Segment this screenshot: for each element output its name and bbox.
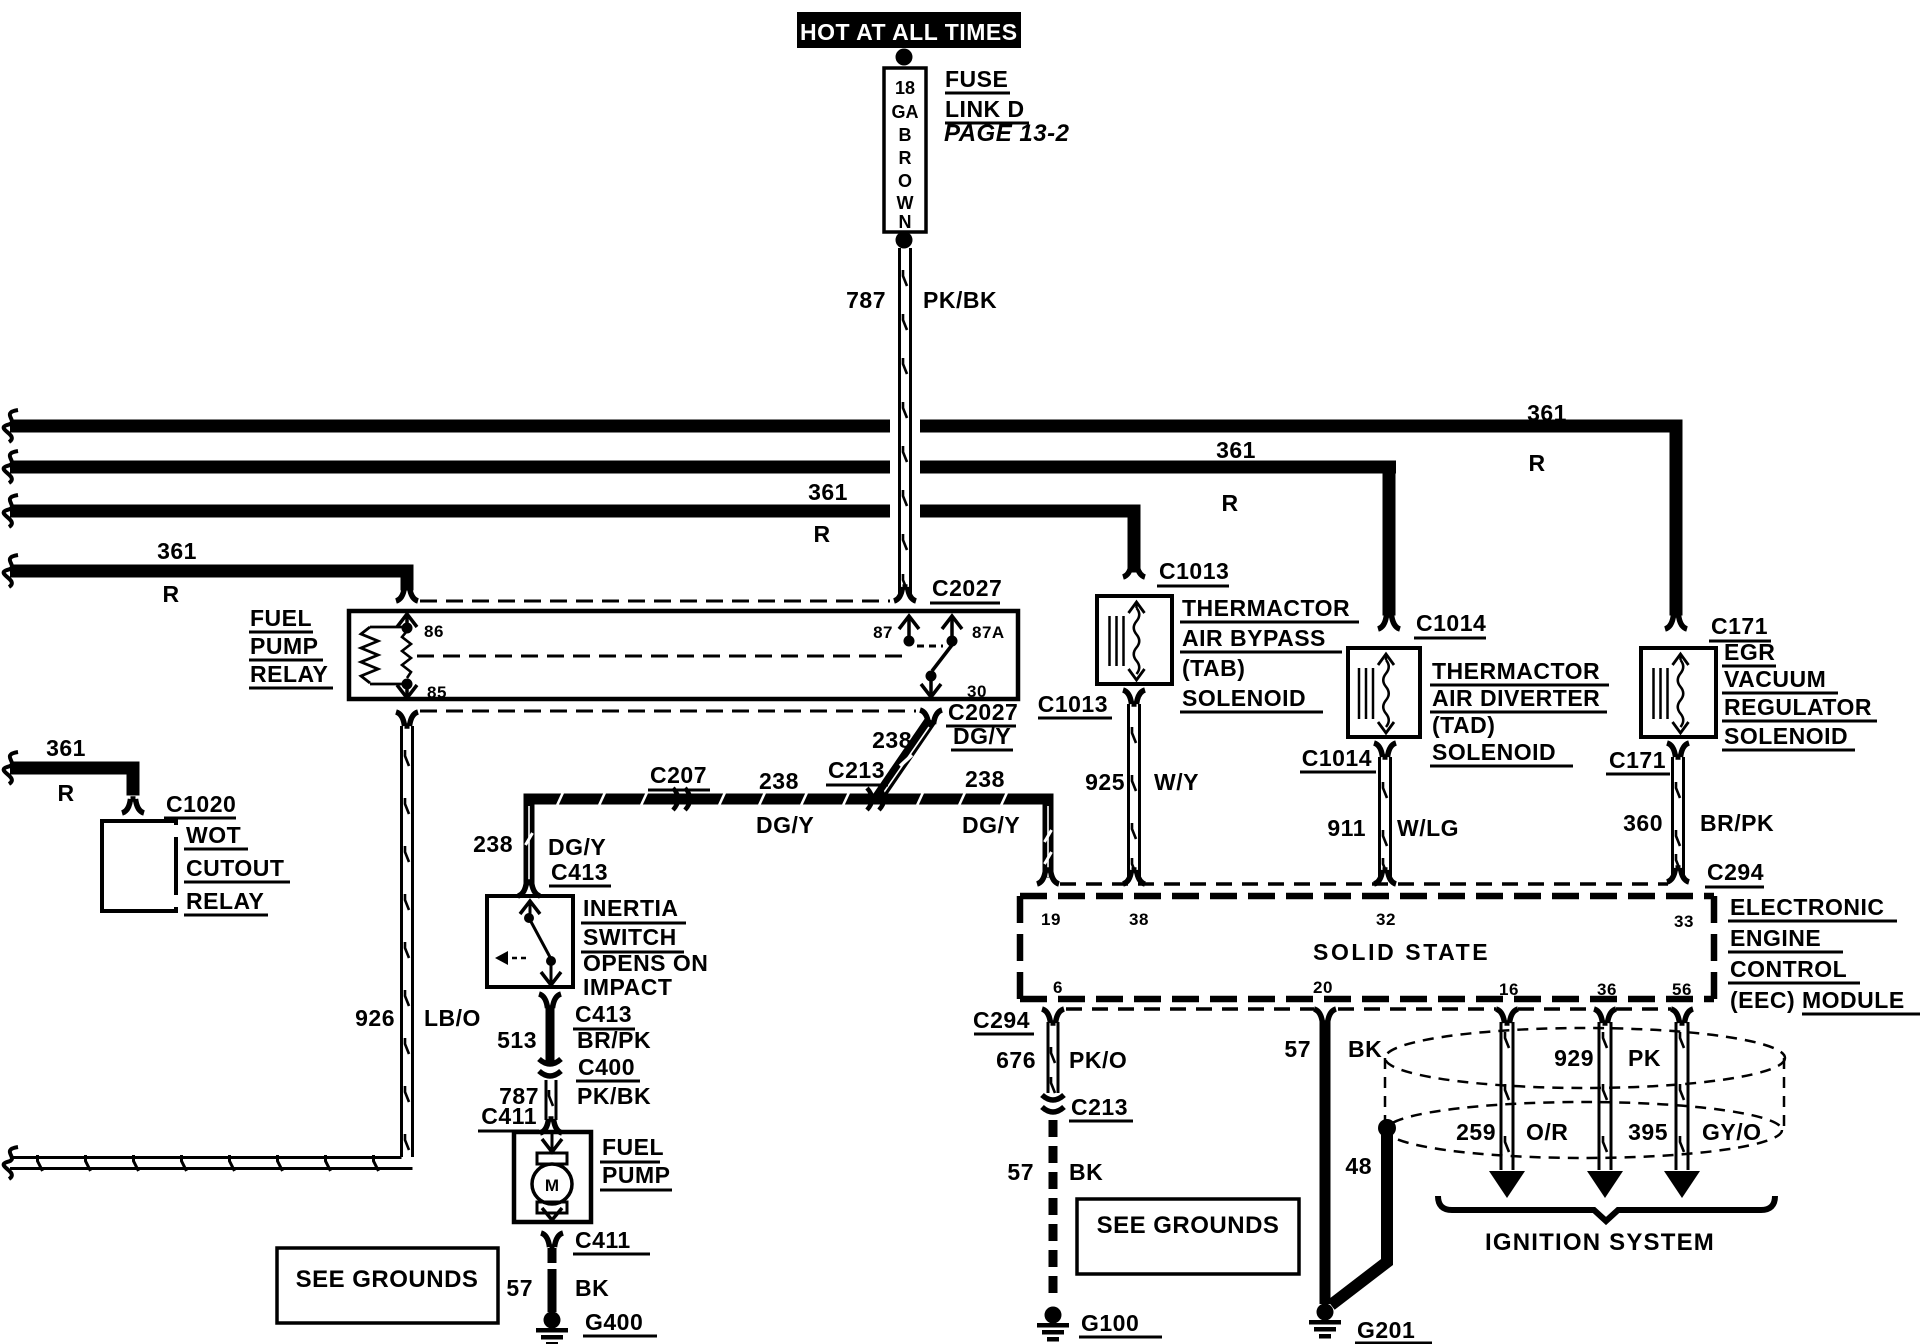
svg-text:SOLID STATE: SOLID STATE <box>1313 939 1490 965</box>
svg-text:WOT: WOT <box>186 822 241 848</box>
ground G400 <box>544 1312 561 1329</box>
distributor dashed ellipse (bottom) <box>1386 1102 1782 1158</box>
fuel pump relay box <box>349 611 1018 699</box>
connector C1013 flare <box>1123 563 1145 577</box>
bottom bus striped wire <box>10 1156 402 1159</box>
svg-text:R: R <box>162 581 179 607</box>
svg-text:PAGE 13-2: PAGE 13-2 <box>944 120 1070 147</box>
wire 926 LB/O <box>400 726 403 1157</box>
connector C1020 flare <box>122 799 144 813</box>
wire 395 GY/O (pin 56) <box>1675 1022 1678 1170</box>
svg-text:LB/O: LB/O <box>424 1005 481 1031</box>
svg-text:C2027: C2027 <box>948 699 1018 725</box>
connector C1014 flare <box>1378 615 1400 629</box>
svg-text:19: 19 <box>1041 910 1061 929</box>
svg-text:36: 36 <box>1597 980 1617 999</box>
svg-text:C411: C411 <box>575 1227 631 1253</box>
svg-text:361: 361 <box>1527 400 1567 426</box>
svg-text:W: W <box>897 193 914 213</box>
wire 57 BK dashed (to G100) <box>1049 1120 1058 1137</box>
inertia switch input arrow <box>520 901 540 914</box>
svg-text:16: 16 <box>1499 980 1519 999</box>
svg-text:787: 787 <box>846 287 886 313</box>
connector C207 <box>673 788 678 810</box>
svg-text:57: 57 <box>1007 1159 1034 1185</box>
connector C411 flare (above pump) <box>540 1119 562 1133</box>
pin 30 output flare <box>920 710 942 724</box>
inertia switch lower contact dot <box>546 956 556 966</box>
wire 787 end flare at C2027 <box>894 587 916 601</box>
svg-text:THERMACTOR: THERMACTOR <box>1432 658 1600 684</box>
svg-text:C1013: C1013 <box>1159 558 1229 584</box>
ground G100 <box>1045 1307 1062 1324</box>
wire 238 right vertical segment <box>1043 794 1054 878</box>
EEC module dashed box <box>1020 893 1714 900</box>
ignition arrowhead (pin 36) <box>1587 1171 1623 1198</box>
svg-text:R: R <box>899 148 912 168</box>
fuel pump output arrow <box>542 1208 562 1220</box>
svg-text:C213: C213 <box>828 757 885 783</box>
svg-text:SEE GROUNDS: SEE GROUNDS <box>1097 1212 1280 1239</box>
wire 57 BK (to G400) <box>548 1248 557 1263</box>
svg-text:R: R <box>813 521 830 547</box>
connector C171 flare (below box) <box>1667 743 1689 757</box>
svg-text:DG/Y: DG/Y <box>548 834 606 860</box>
svg-text:OPENS ON: OPENS ON <box>583 950 708 976</box>
connector C411 flare (below pump) <box>541 1233 563 1247</box>
wire 787 PK/BK (to fuel pump) <box>545 1080 548 1120</box>
svg-text:R: R <box>1528 450 1545 476</box>
ignition arrowhead (pin 16) <box>1489 1171 1525 1198</box>
svg-text:BR/PK: BR/PK <box>1700 810 1774 836</box>
svg-text:360: 360 <box>1623 810 1663 836</box>
svg-text:BR/PK: BR/PK <box>577 1027 651 1053</box>
connector C213 (pin 6 chain) <box>1042 1095 1064 1100</box>
wire 259 O/R (pin 16) <box>1500 1022 1503 1170</box>
svg-text:87A: 87A <box>972 623 1005 642</box>
connector C171 flare <box>1665 615 1687 629</box>
connector C413 flare (below box) <box>539 994 561 1008</box>
svg-text:56: 56 <box>1672 980 1692 999</box>
svg-text:87: 87 <box>873 623 893 642</box>
EGR solenoid <box>1641 648 1716 737</box>
svg-text:18: 18 <box>895 78 915 98</box>
svg-text:676: 676 <box>996 1047 1036 1073</box>
svg-text:238: 238 <box>473 831 513 857</box>
TAD solenoid <box>1348 648 1420 737</box>
svg-text:VACUUM: VACUUM <box>1724 666 1826 692</box>
wire 238 diagonal segment from relay <box>877 720 931 799</box>
svg-text:THERMACTOR: THERMACTOR <box>1182 595 1350 621</box>
svg-text:IGNITION SYSTEM: IGNITION SYSTEM <box>1485 1229 1715 1256</box>
bus 5 break symbol <box>4 752 18 784</box>
flare 911 into pin 32 <box>1374 870 1396 884</box>
wire 787 PK/BK (fuse link to relay pin 87) <box>898 248 901 596</box>
svg-text:911: 911 <box>1327 815 1366 841</box>
svg-text:(TAD): (TAD) <box>1432 712 1495 738</box>
relay pin 85 arrow <box>405 684 409 697</box>
svg-text:C1013: C1013 <box>1038 691 1108 717</box>
flare pin 56 output <box>1671 1009 1693 1023</box>
svg-text:HOT AT ALL TIMES: HOT AT ALL TIMES <box>800 19 1018 45</box>
svg-text:C413: C413 <box>575 1001 632 1027</box>
relay pin 87 arrow <box>899 616 919 629</box>
inertia switch upper contact dot <box>524 913 534 923</box>
relay actuation dashed line <box>417 655 903 658</box>
svg-text:238: 238 <box>965 766 1005 792</box>
bottom bus break symbol <box>4 1147 18 1179</box>
svg-text:IMPACT: IMPACT <box>583 974 672 1000</box>
flare pin 16 output <box>1496 1009 1518 1023</box>
connector C1013 flare (below box) <box>1123 690 1145 704</box>
svg-text:G400: G400 <box>585 1309 643 1335</box>
fuse link D body (18 GA BROWN) <box>884 68 926 232</box>
connector C213 (in 238 run) <box>867 788 872 810</box>
svg-text:R: R <box>57 780 74 806</box>
flare 925 into pin 38 <box>1123 870 1145 884</box>
svg-text:CONTROL: CONTROL <box>1730 956 1847 982</box>
wire 48 to G201 <box>1331 1128 1387 1305</box>
svg-text:R: R <box>1221 490 1238 516</box>
svg-text:C294: C294 <box>973 1007 1030 1033</box>
svg-text:C2027: C2027 <box>932 575 1002 601</box>
svg-text:RELAY: RELAY <box>250 661 328 687</box>
connector C400 <box>539 1059 561 1064</box>
svg-text:B: B <box>899 125 912 145</box>
svg-text:C294: C294 <box>1707 859 1764 885</box>
svg-text:C1020: C1020 <box>166 791 236 817</box>
svg-text:SOLENOID: SOLENOID <box>1432 739 1556 765</box>
svg-text:C207: C207 <box>650 762 707 788</box>
connector C294 dashed boundary (top) <box>1060 882 1668 886</box>
svg-text:361: 361 <box>46 735 86 761</box>
connector C294 dashed boundary (bottom) <box>1066 1007 1314 1011</box>
flare pin 6 output <box>1042 1009 1064 1023</box>
ignition arrowhead (pin 56) <box>1664 1171 1700 1198</box>
connector C413 flare (above box) <box>518 882 540 896</box>
svg-text:INERTIA: INERTIA <box>583 895 679 921</box>
svg-text:ENGINE: ENGINE <box>1730 925 1821 951</box>
svg-text:48: 48 <box>1345 1153 1372 1179</box>
svg-text:PUMP: PUMP <box>250 633 318 659</box>
wire 925 W/Y <box>1127 704 1130 877</box>
svg-text:C213: C213 <box>1071 1094 1128 1120</box>
svg-text:PK/BK: PK/BK <box>577 1083 651 1109</box>
junction dot above fuse link <box>896 49 913 66</box>
svg-text:33: 33 <box>1674 912 1694 931</box>
svg-text:361: 361 <box>1216 437 1256 463</box>
connector C1014 flare (below box) <box>1374 743 1396 757</box>
svg-text:38: 38 <box>1129 910 1149 929</box>
svg-text:M: M <box>545 1176 559 1195</box>
bus 2 break symbol <box>4 451 18 483</box>
ground G201 <box>1317 1304 1334 1321</box>
svg-text:925: 925 <box>1085 769 1125 795</box>
svg-text:FUEL: FUEL <box>602 1134 664 1160</box>
svg-text:C1014: C1014 <box>1416 610 1486 636</box>
svg-text:DG/Y: DG/Y <box>962 812 1020 838</box>
wire 360 BR/PK <box>1671 757 1674 875</box>
svg-text:AIR BYPASS: AIR BYPASS <box>1182 625 1326 651</box>
svg-text:FUSE: FUSE <box>945 66 1008 92</box>
svg-text:G201: G201 <box>1357 1317 1415 1343</box>
svg-text:C413: C413 <box>551 859 608 885</box>
bus 4 break symbol <box>4 555 18 587</box>
bus 3 break symbol <box>4 495 18 527</box>
wire 929 PK (pin 36) <box>1598 1022 1601 1170</box>
svg-text:361: 361 <box>157 538 197 564</box>
flare pin 36 output <box>1594 1009 1616 1023</box>
flare pin 20 output <box>1314 1009 1336 1023</box>
svg-text:FUEL: FUEL <box>250 605 312 631</box>
impact direction arrow <box>495 951 508 965</box>
connector C2027 dashed boundary (bottom) <box>420 710 916 713</box>
relay pin86 feed flare <box>396 587 418 601</box>
svg-text:W/Y: W/Y <box>1154 769 1199 795</box>
svg-text:BK: BK <box>1348 1036 1382 1062</box>
wire 238 left vertical segment <box>524 794 535 886</box>
svg-text:PK/BK: PK/BK <box>923 287 997 313</box>
svg-text:6: 6 <box>1053 978 1063 997</box>
svg-text:PK/O: PK/O <box>1069 1047 1127 1073</box>
svg-text:(EEC) MODULE: (EEC) MODULE <box>1730 987 1905 1013</box>
svg-text:EGR: EGR <box>1724 639 1775 665</box>
relay switch blade <box>932 645 952 671</box>
bus 1 break symbol <box>4 410 18 442</box>
svg-text:LINK D: LINK D <box>945 96 1025 122</box>
ignition system brace <box>1438 1196 1775 1221</box>
connector C2027 dashed boundary (top) <box>420 600 890 603</box>
fuel pump input arrow <box>551 1134 554 1151</box>
wire 57 BK (to G201) <box>1320 1022 1331 1304</box>
svg-text:C171: C171 <box>1711 613 1768 639</box>
flare 238 into pin 19 <box>1037 870 1059 884</box>
svg-text:32: 32 <box>1376 910 1396 929</box>
svg-text:C400: C400 <box>578 1054 635 1080</box>
svg-text:C411: C411 <box>481 1103 537 1129</box>
wire 676 PK/O <box>1047 1022 1050 1093</box>
inertia switch blade <box>529 918 551 959</box>
bus wire 361 (to TAD C1014), broken at 787 crossing <box>10 461 890 474</box>
wire 911 W/LG <box>1378 757 1381 877</box>
power feed label: HOT AT ALL TIMES <box>797 12 1021 48</box>
fuel pump motor <box>537 1153 567 1164</box>
pin 87A dot <box>947 636 958 647</box>
svg-text:513: 513 <box>497 1027 537 1053</box>
wire 513 BR/PK <box>546 1008 555 1062</box>
svg-text:361: 361 <box>808 479 848 505</box>
bus wire 361 (to EGR C171), broken at 787 crossing <box>10 420 890 433</box>
svg-text:SEE GROUNDS: SEE GROUNDS <box>296 1266 479 1293</box>
relay pin 87A arrow <box>942 616 962 629</box>
switch blade dot <box>926 671 937 682</box>
svg-text:CUTOUT: CUTOUT <box>186 855 284 881</box>
junction dot below fuse link <box>896 232 913 249</box>
svg-text:86: 86 <box>424 622 444 641</box>
svg-text:G100: G100 <box>1081 1310 1139 1336</box>
svg-text:W/LG: W/LG <box>1397 815 1459 841</box>
svg-text:259: 259 <box>1456 1119 1496 1145</box>
svg-text:PK: PK <box>1628 1045 1661 1071</box>
svg-text:(TAB): (TAB) <box>1182 655 1245 681</box>
wire 238 horizontal run <box>524 794 1054 805</box>
pin 85 dot <box>402 679 413 690</box>
pin 86 dot <box>402 623 413 634</box>
dashed link 87 to 87A <box>917 645 943 648</box>
flare 360 into pin 33 <box>1667 868 1689 882</box>
svg-text:395: 395 <box>1628 1119 1668 1145</box>
svg-text:AIR DIVERTER: AIR DIVERTER <box>1432 685 1600 711</box>
svg-text:SOLENOID: SOLENOID <box>1182 685 1306 711</box>
svg-text:O: O <box>898 171 912 191</box>
svg-text:O/R: O/R <box>1526 1119 1568 1145</box>
inertia switch output arrow <box>550 961 553 984</box>
svg-text:N: N <box>899 212 912 232</box>
distributor dashed ellipse (top) <box>1385 1028 1785 1088</box>
svg-text:GY/O: GY/O <box>1702 1119 1762 1145</box>
pin 85 output flare <box>396 712 418 726</box>
svg-text:ELECTRONIC: ELECTRONIC <box>1730 894 1885 920</box>
wire 48 junction dot <box>1378 1119 1396 1137</box>
bus wire 361 (to fuel pump relay pin 86) <box>10 565 412 578</box>
WOT cutout relay box <box>102 821 176 911</box>
svg-text:238: 238 <box>759 768 799 794</box>
svg-text:BK: BK <box>575 1275 609 1301</box>
TAB solenoid <box>1097 596 1172 684</box>
fuel pump box <box>514 1132 591 1222</box>
svg-text:C171: C171 <box>1609 747 1666 773</box>
see grounds note box (left) <box>277 1248 498 1323</box>
pin 87 dot <box>904 636 915 647</box>
svg-text:C1014: C1014 <box>1302 745 1372 771</box>
relay coil <box>370 626 407 629</box>
svg-text:SWITCH: SWITCH <box>583 924 677 950</box>
svg-text:929: 929 <box>1554 1045 1594 1071</box>
bus wire 361 (to WOT cutout relay) <box>10 762 139 775</box>
svg-text:PUMP: PUMP <box>602 1162 670 1188</box>
distributor side dashes <box>1384 1058 1387 1130</box>
relay pin 30 arrow <box>929 676 933 696</box>
bus wire 361 (to TAB C1013), broken at 787 crossing <box>10 505 890 518</box>
svg-text:GA: GA <box>892 102 919 122</box>
svg-text:REGULATOR: REGULATOR <box>1724 694 1872 720</box>
svg-text:BK: BK <box>1069 1159 1103 1185</box>
svg-text:DG/Y: DG/Y <box>953 723 1011 749</box>
svg-text:85: 85 <box>427 683 447 702</box>
svg-text:RELAY: RELAY <box>186 888 264 914</box>
svg-text:57: 57 <box>1284 1036 1311 1062</box>
svg-text:926: 926 <box>355 1005 395 1031</box>
svg-text:57: 57 <box>506 1275 533 1301</box>
svg-text:DG/Y: DG/Y <box>756 812 814 838</box>
see grounds note box (right) <box>1077 1199 1299 1274</box>
svg-text:SOLENOID: SOLENOID <box>1724 723 1848 749</box>
svg-text:20: 20 <box>1313 978 1333 997</box>
inertia switch box <box>487 896 573 987</box>
relay pin 86 arrow <box>397 614 417 627</box>
